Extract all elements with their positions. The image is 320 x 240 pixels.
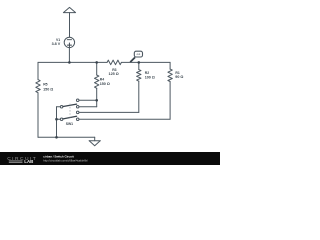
- svg-text:out: out: [137, 52, 141, 56]
- svg-text:LAB: LAB: [24, 159, 33, 164]
- svg-text:150 Ω: 150 Ω: [100, 82, 110, 86]
- svg-text:R5: R5: [43, 83, 47, 87]
- svg-text:SW1: SW1: [66, 122, 73, 126]
- svg-text:100 Ω: 100 Ω: [145, 75, 155, 79]
- svg-text:cirban / Switch Circuit: cirban / Switch Circuit: [43, 155, 73, 159]
- svg-text:90 Ω: 90 Ω: [175, 75, 183, 79]
- svg-text:http://circuitlab.com/c/68ae/4: http://circuitlab.com/c/68ae/4yafuh6b/: [43, 159, 88, 163]
- svg-text:125 Ω: 125 Ω: [109, 72, 119, 76]
- svg-text:150 Ω: 150 Ω: [43, 88, 53, 92]
- svg-text:3.8 V: 3.8 V: [52, 42, 61, 46]
